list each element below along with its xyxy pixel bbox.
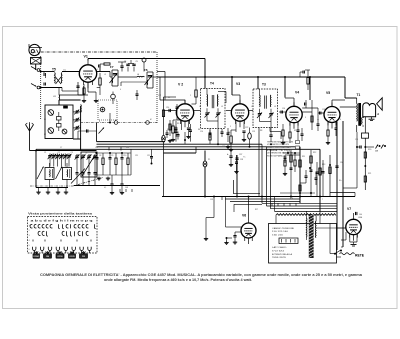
svg-text:5: 5 — [29, 245, 30, 247]
svg-text:COMPAGNIA GENERALE DI ELETTRIC: COMPAGNIA GENERALE DI ELETTRICITA' - App… — [40, 273, 362, 277]
screen dash line grommets — [114, 121, 118, 125]
V2 plate wire — [194, 110, 201, 112]
FM tuned line bus — [80, 106, 82, 139]
bus corner segment — [164, 152, 197, 154]
svg-text:F7: F7 — [110, 65, 114, 69]
svg-text:L7: L7 — [251, 106, 253, 108]
svg-text:C30: C30 — [340, 162, 343, 164]
V5 cathode parts — [327, 122, 329, 131]
keyboard box outline — [28, 217, 98, 254]
svg-text:L1: L1 — [44, 119, 46, 121]
svg-text:T1: T1 — [357, 93, 361, 97]
feeder column x320 — [319, 149, 321, 211]
resistor under T4 — [209, 134, 211, 140]
AVC feed wire — [78, 130, 97, 132]
wire pickup to chassis — [35, 64, 37, 70]
svg-text:V4: V4 — [295, 90, 299, 94]
V4 plate parts — [302, 111, 312, 113]
svg-text:R17: R17 — [255, 209, 258, 211]
svg-text:V6: V6 — [242, 214, 246, 218]
B+ rail 2 — [157, 76, 345, 78]
svg-text:onde allargate FM. Media frequ: onde allargate FM. Media frequenza a 460… — [104, 278, 252, 282]
svg-text:R11: R11 — [302, 156, 305, 158]
svg-text:C37: C37 — [239, 154, 242, 156]
V4 top wire — [293, 98, 295, 106]
rail end to T1 — [344, 77, 346, 98]
V4 lower parts — [282, 130, 284, 136]
bottom right bus — [330, 192, 355, 194]
T2 connections — [305, 211, 307, 218]
svg-text:R12: R12 — [313, 152, 316, 154]
band switch lever long — [71, 169, 85, 184]
svg-text:C26: C26 — [282, 108, 285, 110]
keyboard sparse ticks — [32, 240, 34, 242]
FM unit inner coil — [62, 129, 67, 134]
svg-text:C5: C5 — [136, 61, 138, 63]
svg-text:V3: V3 — [236, 82, 240, 86]
AVC riser from FM box — [96, 123, 98, 142]
dial lamp 2 — [162, 135, 166, 142]
antenna — [29, 131, 31, 151]
V6 grid wire — [226, 226, 242, 228]
svg-text:C16: C16 — [76, 129, 79, 131]
svg-text:L11: L11 — [53, 96, 56, 98]
svg-text:R13: R13 — [322, 164, 325, 166]
svg-text:VOLTMETRO 1000 Ω/V: VOLTMETRO 1000 Ω/V — [267, 144, 290, 146]
FM trimmers on right wall — [73, 111, 76, 113]
svg-text:1: 1 — [29, 225, 30, 227]
svg-text:OC50: OC50 — [57, 256, 63, 258]
svg-text:R21: R21 — [368, 173, 371, 175]
loudspeaker horn — [377, 98, 383, 110]
T1 secondary winding — [361, 118, 364, 125]
corner under volume — [233, 180, 235, 194]
V3 top wire — [239, 95, 241, 104]
coil L11 below T5 — [58, 88, 60, 96]
svg-text:T4: T4 — [210, 81, 214, 85]
V3 cathode parts — [235, 122, 237, 133]
V6 cathode cap — [233, 235, 236, 237]
padder caps right group — [76, 172, 79, 174]
oscillator coil box 1 — [45, 168, 54, 180]
heater bus lines — [262, 202, 337, 204]
trimmer row 2 — [76, 154, 78, 156]
filter circle component — [111, 94, 116, 99]
mains cord — [340, 253, 355, 255]
wire pair down x214 — [213, 197, 215, 218]
svg-text:V 2: V 2 — [178, 82, 183, 86]
T1 primary winding — [356, 104, 359, 122]
T5 input terminals — [41, 71, 55, 73]
coil L6 — [137, 75, 144, 78]
long vertical x343 — [342, 121, 344, 247]
V1 right parts — [99, 66, 101, 72]
V2 grid input — [164, 110, 177, 112]
svg-text:3: 3 — [305, 117, 306, 119]
V1 pin wires — [83, 86, 85, 95]
V4 grid parts — [279, 111, 287, 113]
rail drop x258 — [257, 77, 259, 89]
svg-text:L3: L3 — [104, 74, 106, 76]
svg-text:L2: L2 — [44, 134, 46, 136]
V1 lower wires — [88, 91, 96, 93]
svg-text:CAMBIO TENSIONE: CAMBIO TENSIONE — [272, 227, 295, 230]
svg-text:L9: L9 — [274, 106, 276, 108]
svg-text:C2: C2 — [58, 152, 60, 154]
FM tuner unit box — [45, 105, 73, 139]
svg-text:3: 3 — [29, 235, 30, 237]
rail drop x285 — [284, 77, 286, 97]
heater sawtooth line — [276, 214, 336, 216]
keyboard contact rows — [30, 224, 32, 228]
ground symbols under switch — [38, 188, 40, 191]
svg-text:C3: C3 — [71, 152, 73, 154]
keyboard contact row 2 — [38, 231, 40, 235]
wire FM to AVC — [77, 131, 79, 139]
AF cluster frame — [95, 152, 131, 154]
keyboard lower contacts — [33, 247, 36, 251]
T2 secondary winding — [314, 221, 317, 238]
switch bank bottom bus — [36, 187, 68, 189]
svg-text:C23: C23 — [252, 131, 255, 133]
mid-right extra wires — [329, 155, 331, 197]
long vertical x163 mid — [163, 97, 165, 135]
svg-text:V1: V1 — [84, 55, 88, 59]
svg-text:7 k: 7 k — [243, 157, 245, 159]
dial lamp — [204, 151, 206, 162]
svg-text:6: 6 — [340, 119, 341, 121]
svg-text:C48: C48 — [125, 187, 128, 189]
shield enclosure dash-dot top — [41, 51, 157, 53]
svg-text:4: 4 — [29, 240, 30, 242]
svg-text:V5: V5 — [326, 91, 330, 95]
power supply box — [269, 224, 337, 264]
wire T1 bottom down — [356, 132, 358, 188]
decoupling parts under IF strip — [166, 130, 168, 133]
second group bottom bus — [74, 185, 160, 187]
T4 connections — [206, 89, 208, 96]
cap C38 — [236, 155, 238, 162]
shield enclosure left dotted — [40, 56, 42, 120]
svg-text:OC25: OC25 — [69, 256, 75, 258]
V5 plate wire — [340, 106, 357, 108]
svg-text:T5: T5 — [52, 68, 56, 72]
FM coil L10 — [80, 105, 83, 113]
switch column risers — [108, 147, 110, 151]
bus line 4 — [36, 148, 320, 150]
svg-text:F6: F6 — [144, 68, 148, 72]
FM trimmer block — [57, 117, 62, 121]
wire T5 to V1 — [62, 71, 80, 73]
svg-text:R18: R18 — [290, 198, 293, 200]
svg-text:2: 2 — [190, 95, 191, 97]
svg-text:R20: R20 — [368, 149, 371, 151]
tone terminals — [365, 146, 374, 148]
FM coil L2 — [48, 128, 54, 134]
svg-text:6 V2 6X4: 6 V2 6X4 — [272, 250, 285, 252]
feeder column x262 — [261, 196, 263, 198]
svg-text:Vista posteriore della tastier: Vista posteriore della tastiera — [28, 212, 92, 216]
power transformer T2 core — [309, 214, 314, 258]
svg-text:C35: C35 — [210, 199, 213, 201]
long vertical x337 — [336, 122, 338, 251]
V5 grid wire — [318, 112, 324, 114]
band switch lever 1 — [37, 167, 44, 180]
svg-text:RETE: RETE — [355, 253, 365, 257]
rail drop x310 — [309, 77, 311, 100]
svg-text:C7: C7 — [60, 147, 62, 149]
svg-text:OM: OM — [46, 256, 50, 258]
AF cluster bottom — [95, 174, 131, 176]
svg-text:R1: R1 — [168, 97, 170, 99]
svg-text:FM: FM — [82, 256, 85, 258]
V6 pin grounds — [244, 240, 246, 245]
speaker output jack — [364, 117, 366, 133]
svg-text:R8: R8 — [260, 130, 262, 132]
keyboard buttons — [35, 251, 37, 254]
svg-text:C13: C13 — [126, 147, 129, 149]
more wire texture top — [157, 71, 165, 73]
heater feed risers — [261, 144, 263, 203]
svg-text:C44: C44 — [359, 214, 362, 216]
extra caps under F6 — [136, 93, 139, 95]
T1 lead wires — [356, 98, 358, 104]
cap x337 — [335, 165, 338, 167]
svg-text:C21: C21 — [222, 146, 225, 148]
svg-text:R9: R9 — [294, 130, 296, 132]
wires filters — [110, 76, 112, 78]
feedback divider — [364, 147, 366, 190]
svg-text:L10: L10 — [82, 101, 85, 103]
svg-text:160 220: 160 220 — [272, 235, 284, 237]
svg-text:C2a: C2a — [63, 70, 66, 72]
svg-text:ATTENZIONE ALLA: ATTENZIONE ALLA — [272, 253, 293, 256]
between V4 V5 parts — [311, 112, 313, 130]
svg-text:L4: L4 — [199, 106, 201, 108]
voltage selector box — [279, 238, 298, 244]
V2 cathode parts — [181, 121, 183, 130]
plate load V4 to V5 wire — [302, 107, 318, 109]
svg-text:C31: C31 — [355, 139, 358, 141]
feeder column x300 — [299, 147, 301, 204]
svg-text:TENSIONI MISURATE CON: TENSIONI MISURATE CON — [267, 140, 294, 143]
T2 primary winding — [305, 218, 308, 237]
svg-text:a b c d e f g h i l m n o p q: a b c d e f g h i l m n o p q — [31, 219, 94, 223]
power box risers — [319, 211, 321, 223]
band switch bus top — [35, 150, 97, 152]
svg-text:110 125 140: 110 125 140 — [272, 231, 289, 233]
extra bottom bus lines — [225, 198, 300, 200]
mains switch — [335, 250, 341, 254]
feeder V3 column — [236, 155, 238, 197]
corner grommet — [142, 58, 146, 62]
svg-text:C28: C28 — [322, 109, 325, 111]
svg-text:6: 6 — [29, 249, 30, 251]
AVC bus — [97, 141, 166, 143]
AF coupling caps below — [111, 175, 113, 184]
svg-text:C12: C12 — [147, 155, 150, 157]
svg-text:C6: C6 — [85, 153, 87, 155]
svg-text:C10: C10 — [123, 155, 126, 157]
F7 extra parts — [120, 65, 123, 67]
svg-text:L5: L5 — [221, 106, 223, 108]
T3 connections — [259, 89, 261, 96]
svg-text:P1: P1 — [208, 159, 210, 161]
svg-text:A: A — [377, 112, 379, 116]
V2 screen resistor — [195, 90, 197, 97]
under V3 parts — [227, 128, 229, 142]
left of V2 parts — [169, 120, 171, 136]
FM IF dotted box — [98, 100, 117, 120]
T1 core — [358, 103, 361, 126]
phono pickup P — [29, 44, 40, 55]
svg-text:V7: V7 — [347, 207, 351, 211]
svg-text:1: 1 — [97, 69, 98, 71]
V5 top wire — [331, 100, 333, 107]
wire FM box bottom — [73, 138, 81, 140]
mech link dash-dot — [30, 185, 73, 187]
bus line 3 — [97, 146, 296, 148]
switch frame right group — [81, 152, 97, 177]
parts below V2 — [175, 127, 178, 129]
svg-text:7: 7 — [322, 199, 323, 201]
FM coil L1 — [48, 110, 54, 116]
extra heater stubs — [271, 203, 273, 206]
T3 output corner — [269, 128, 271, 132]
shield enclosure bottom dotted — [81, 122, 158, 124]
svg-text:LATO SALD.: LATO SALD. — [272, 246, 288, 249]
V7 pin wires — [337, 227, 346, 229]
electrolytic cap C36 — [230, 150, 232, 156]
B+ rail top — [88, 58, 205, 60]
bus line 2 — [97, 143, 263, 145]
pickup body box — [31, 58, 42, 65]
svg-text:L12: L12 — [95, 147, 98, 149]
speaker ground — [371, 117, 373, 120]
svg-text:C9: C9 — [111, 155, 113, 157]
rail drop x232 — [231, 77, 233, 95]
detector diode parts — [269, 134, 272, 136]
svg-text:TENS. RETE: TENS. RETE — [272, 257, 287, 259]
V2 top pin wire — [184, 100, 186, 104]
band switch lever 2 — [56, 167, 63, 180]
T4 trimmers — [205, 112, 208, 114]
svg-text:C22: C22 — [245, 127, 248, 129]
T3 trimmers — [258, 113, 261, 115]
svg-text:2: 2 — [29, 230, 30, 232]
loudspeaker pot — [363, 103, 376, 117]
mains wires — [330, 253, 335, 255]
svg-text:C8: C8 — [99, 155, 101, 157]
FM unit small cap — [64, 106, 68, 108]
svg-text:T3: T3 — [262, 82, 266, 86]
wire x222 stub — [221, 197, 223, 201]
resistor field mid — [290, 150, 292, 197]
aerial input arrows — [31, 67, 36, 70]
filter cap wires — [345, 232, 347, 240]
terminal circles left edge — [37, 69, 40, 72]
wire V1 top to rail — [87, 59, 89, 61]
svg-text:R3: R3 — [177, 123, 179, 125]
V1 plate wire — [97, 71, 110, 73]
V3 plate wire — [249, 110, 253, 112]
under keyboard mid caps — [119, 189, 121, 192]
oscillator coil box 2 — [63, 168, 72, 180]
V1 cathode network — [77, 82, 79, 95]
V3 grid wire — [226, 110, 231, 112]
isolated cap x151 — [151, 149, 153, 156]
svg-text:SONO A FIANCO: SONO A FIANCO — [267, 154, 286, 157]
svg-text:C38: C38 — [240, 159, 243, 161]
svg-text:C20: C20 — [200, 131, 203, 133]
long vertical x259 — [258, 128, 260, 197]
svg-text:0,1: 0,1 — [104, 187, 106, 189]
svg-text:C17: C17 — [158, 95, 161, 97]
svg-text:L6: L6 — [137, 74, 139, 76]
wires coil boxes to buses — [49, 163, 51, 168]
svg-text:4: 4 — [120, 89, 121, 91]
svg-text:C1: C1 — [44, 152, 46, 154]
AF cluster columns — [96, 153, 98, 158]
wire left riser — [35, 151, 37, 188]
svg-text:5 k: 5 k — [339, 180, 341, 182]
V4 cathode — [289, 122, 291, 132]
ground left of V6 — [226, 238, 228, 241]
svg-text:C14: C14 — [166, 107, 169, 109]
rail drop to T4 — [204, 59, 206, 89]
trimmer row left — [49, 154, 51, 156]
wire FM box top — [58, 100, 60, 105]
svg-text:FONO: FONO — [33, 256, 39, 258]
bottom distribution bus — [162, 196, 355, 198]
svg-text:C11: C11 — [135, 155, 138, 157]
coupling caps C — [127, 67, 129, 72]
svg-text:FRA I PUNTI INDICATI: FRA I PUNTI INDICATI — [267, 146, 292, 149]
svg-text:208: 208 — [375, 151, 378, 153]
detector lamp oval — [249, 128, 251, 134]
svg-text:5: 5 — [230, 126, 231, 128]
wire antenna to switch — [30, 150, 37, 152]
shield enclosure right dotted — [156, 52, 158, 124]
heater corner stubs — [234, 203, 262, 205]
